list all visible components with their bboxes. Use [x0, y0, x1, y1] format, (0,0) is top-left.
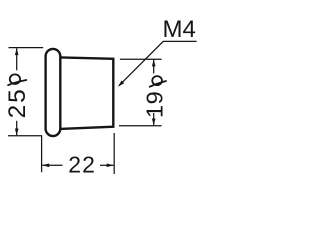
- extension line 22 right: [113, 133, 115, 174]
- dimension line 22 left segment: [42, 164, 62, 166]
- dimension line 19φ top segment: [153, 60, 155, 74]
- phi symbol left: slash: [8, 80, 26, 85]
- extension line bottom-right (19φ): [119, 125, 162, 127]
- arrow M4 leader: [118, 81, 124, 87]
- dimension line 22 right segment: [100, 164, 114, 166]
- dimension line 25φ top segment: [16, 48, 18, 70]
- arrow down 25φ: [15, 129, 19, 136]
- extension line top-right (19φ): [120, 58, 162, 60]
- phi symbol right: slash: [150, 81, 166, 87]
- arrow left 22: [42, 164, 49, 168]
- arrow down 19φ: [152, 119, 156, 126]
- dimension line 25φ bottom segment: [16, 121, 18, 136]
- dimension line 19φ bottom segment: [153, 113, 155, 125]
- arrow right 22: [107, 164, 114, 168]
- extension line bottom-left + 22 left extension: [8, 136, 42, 172]
- knob body (tapered): [60, 57, 113, 128]
- svg-text:M4: M4: [163, 16, 196, 43]
- knob flange (pill): [46, 49, 61, 136]
- svg-text:19: 19: [141, 91, 167, 118]
- svg-text:25: 25: [4, 87, 31, 118]
- extension line top-left (25φ): [9, 47, 44, 49]
- arrow up 25φ: [15, 48, 19, 55]
- leader line M4: [119, 41, 196, 85]
- svg-text:22: 22: [68, 152, 96, 178]
- arrow up 19φ: [152, 59, 156, 66]
- phi symbol left: loop: [10, 74, 20, 84]
- phi symbol right: loop: [152, 76, 162, 85]
